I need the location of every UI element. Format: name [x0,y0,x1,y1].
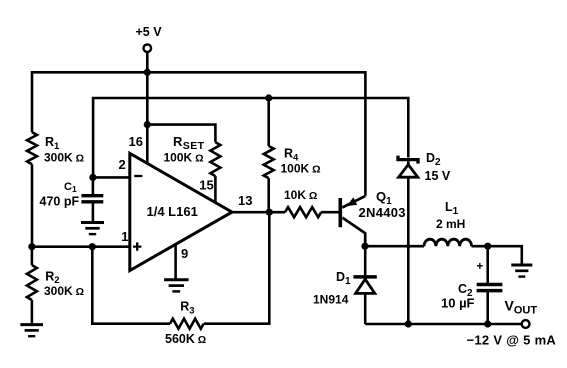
svg-text:100K Ω: 100K Ω [281,162,321,176]
svg-text:1/4 L161: 1/4 L161 [147,204,198,219]
svg-text:10K Ω: 10K Ω [284,188,317,202]
svg-text:15 V: 15 V [425,169,451,183]
svg-text:100K Ω: 100K Ω [164,150,204,164]
svg-text:300K Ω: 300K Ω [44,284,84,298]
svg-text:9: 9 [181,246,188,261]
svg-text:13: 13 [238,193,252,208]
svg-text:300K Ω: 300K Ω [44,151,84,165]
svg-text:+5 V: +5 V [136,25,163,39]
svg-text:2N4403: 2N4403 [359,205,406,220]
svg-text:2: 2 [119,157,126,172]
svg-text:−12 V @ 5 mA: −12 V @ 5 mA [467,333,557,348]
svg-text:1: 1 [121,229,128,244]
svg-text:10 µF: 10 µF [441,296,475,311]
svg-text:470 pF: 470 pF [40,195,80,209]
svg-text:1N914: 1N914 [313,292,349,306]
svg-text:15: 15 [199,178,213,193]
svg-text:+: + [477,261,484,273]
svg-text:560K Ω: 560K Ω [165,332,206,346]
svg-text:16: 16 [129,134,143,149]
svg-text:2 mH: 2 mH [436,217,465,231]
